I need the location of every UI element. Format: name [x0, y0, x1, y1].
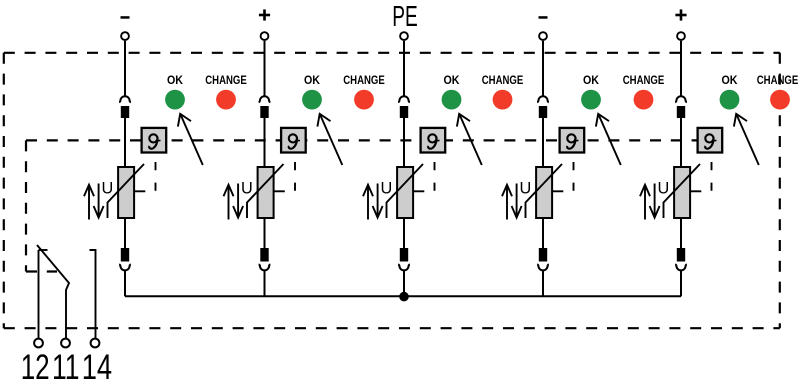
svg-text:CHANGE: CHANGE — [623, 73, 665, 87]
svg-text:U: U — [520, 179, 532, 197]
svg-text:OK: OK — [304, 73, 320, 87]
svg-text:U: U — [241, 179, 253, 197]
svg-text:12: 12 — [21, 347, 50, 384]
svg-text:OK: OK — [722, 73, 738, 87]
svg-text:CHANGE: CHANGE — [757, 73, 799, 87]
svg-text:CHANGE: CHANGE — [343, 73, 385, 87]
svg-text:OK: OK — [444, 73, 460, 87]
svg-text:U: U — [381, 179, 393, 197]
svg-text:11: 11 — [52, 347, 80, 384]
svg-text:CHANGE: CHANGE — [482, 73, 524, 87]
svg-text:OK: OK — [583, 73, 599, 87]
svg-text:14: 14 — [82, 347, 112, 384]
svg-text:CHANGE: CHANGE — [205, 73, 247, 87]
svg-text:OK: OK — [167, 73, 183, 87]
svg-text:PE: PE — [392, 1, 418, 33]
svg-text:U: U — [102, 179, 114, 197]
svg-text:U: U — [658, 179, 670, 197]
